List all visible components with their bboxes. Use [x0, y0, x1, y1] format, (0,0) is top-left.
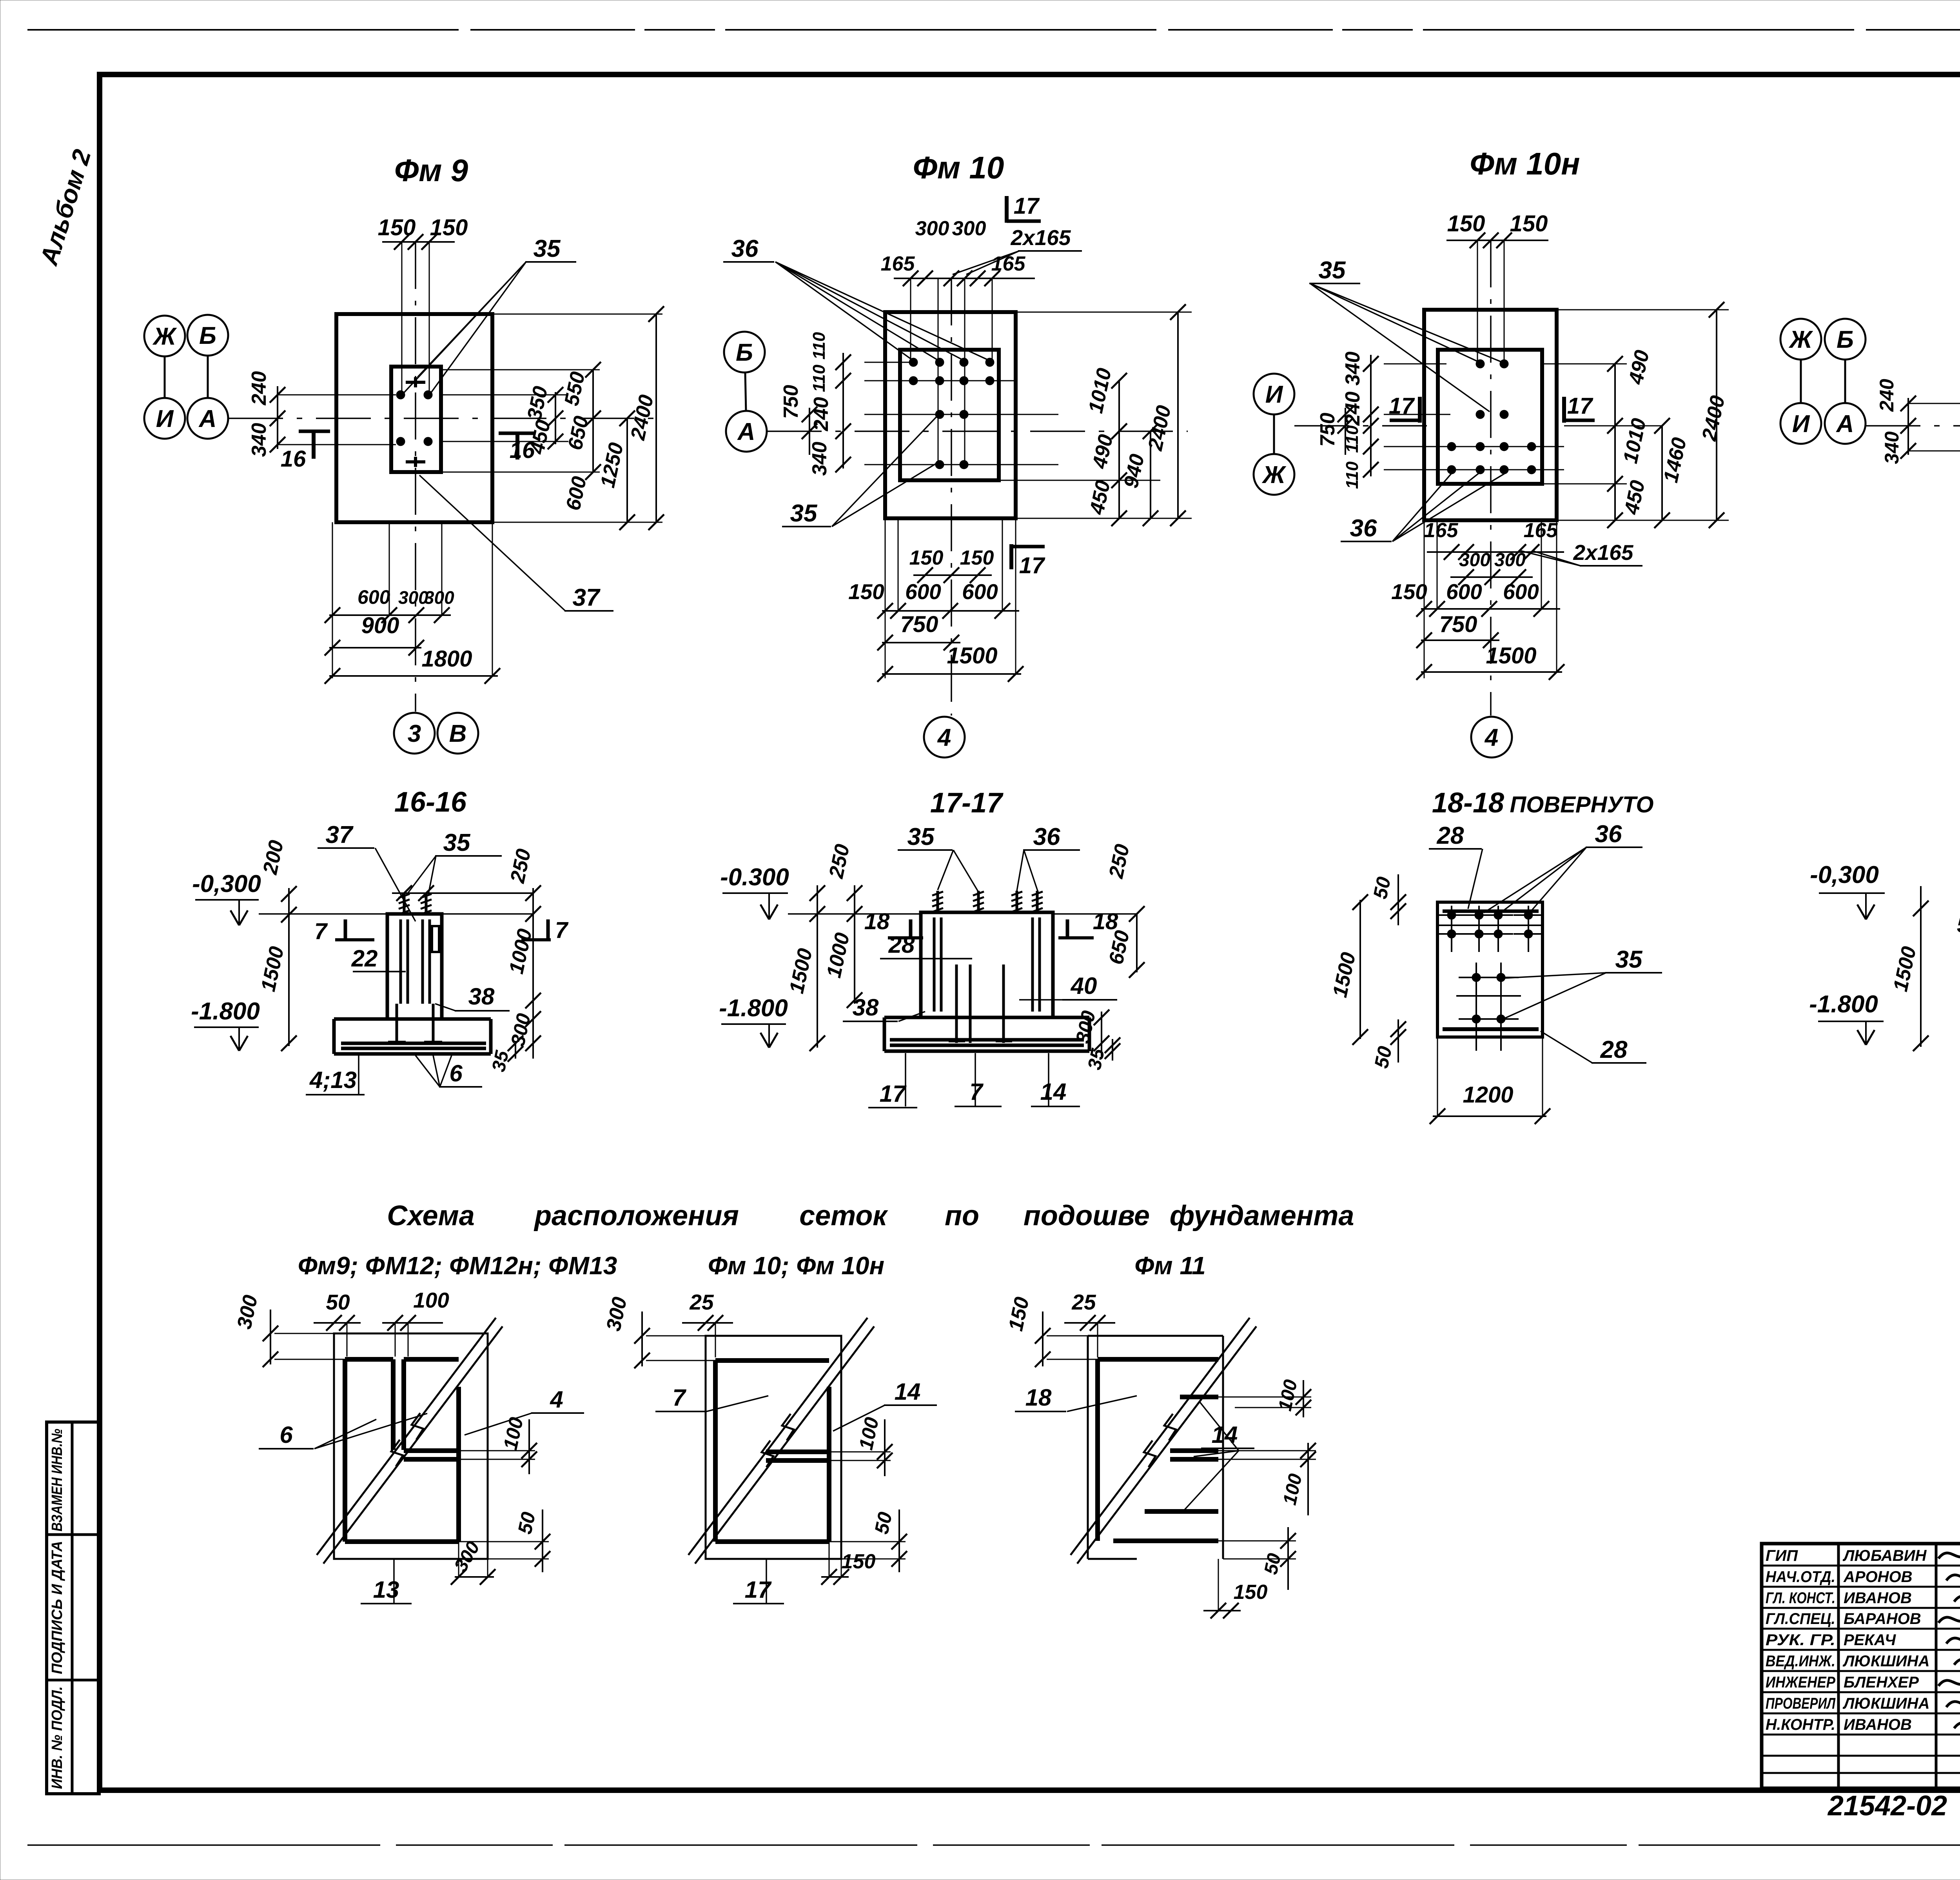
signature table frame [1762, 1544, 1960, 1788]
svg-text:36: 36 [1595, 821, 1622, 848]
svg-text:110: 110 [1343, 461, 1362, 489]
mesh3 label 18 [1015, 1384, 1137, 1411]
svg-text:35: 35 [443, 829, 471, 856]
svg-text:расположения: расположения [534, 1200, 739, 1232]
mesh1 dim 300 [233, 1293, 345, 1367]
plan FM10 bot dim line0 [913, 567, 992, 583]
sect19 level -0300 [1810, 861, 1885, 919]
plan FM10N bot dim 1500 [1486, 643, 1536, 668]
signature table rows [1762, 1566, 1960, 1773]
sect19 level -1800 [1809, 991, 1884, 1045]
signatures squiggles [1938, 1541, 1960, 1728]
sect16 footing body [334, 1019, 491, 1054]
svg-text:50: 50 [514, 1510, 539, 1536]
plan FM10 left dims [780, 332, 851, 476]
svg-text:22: 22 [351, 945, 378, 972]
plan FM10N bolts mid [1476, 410, 1508, 419]
plan FM10 bot dim 150 150 [909, 547, 994, 569]
svg-text:Б: Б [199, 322, 216, 349]
svg-text:150: 150 [1391, 579, 1427, 604]
svg-text:В: В [449, 720, 467, 747]
plan FM10N section mark 17 right [1564, 393, 1595, 423]
plan FM9 bottom dim 1800 [421, 646, 472, 672]
svg-text:А: А [1836, 411, 1854, 438]
sect17 base mesh bars [890, 1040, 1084, 1045]
svg-text:16-16: 16-16 [394, 787, 467, 818]
svg-text:750: 750 [1439, 612, 1477, 637]
mesh label fm10 group [708, 1252, 884, 1280]
svg-text:36: 36 [1350, 515, 1377, 542]
sect16 dim 35 [488, 1035, 523, 1074]
plan FM10N title [1470, 146, 1580, 181]
plan FM10 vert gridlines [911, 278, 992, 467]
svg-text:1200: 1200 [1463, 1082, 1513, 1108]
plan FM9 title [394, 153, 468, 188]
sect17 dim 650 [1105, 906, 1145, 978]
plan FM10N right dims [1607, 302, 1730, 528]
sect17 label 36 [1017, 823, 1080, 892]
sect16 dim 300 [506, 1012, 535, 1048]
plan FM9 label 35 [404, 235, 576, 394]
svg-text:АРОНОВ: АРОНОВ [1843, 1568, 1913, 1586]
sect18 label 28 top [1429, 822, 1483, 909]
sect18 dim 1500 [1328, 894, 1368, 1045]
sect16 left dim line [281, 886, 297, 1051]
svg-text:БАРАНОВ: БАРАНОВ [1844, 1610, 1921, 1628]
svg-text:2x165: 2x165 [1573, 540, 1634, 565]
plan FM10 label 36 [723, 235, 990, 361]
svg-text:17: 17 [1014, 193, 1040, 219]
sect16 level -1800 [191, 998, 260, 1051]
plan FM10 top dim line [894, 271, 1035, 286]
sect16 column body [387, 914, 442, 1019]
sect18 dim 1200 [1430, 1037, 1550, 1124]
svg-text:7: 7 [555, 917, 569, 943]
sect18 bolts bottom [1459, 1004, 1519, 1051]
svg-text:ПОВЕРНУТО: ПОВЕРНУТО [1510, 792, 1653, 817]
svg-text:ИВАНОВ: ИВАНОВ [1844, 1716, 1912, 1733]
plan FM9 outer outline [336, 314, 492, 522]
mesh2 dim 300 [602, 1295, 715, 1368]
sect17 top line [788, 913, 1137, 915]
svg-text:750: 750 [780, 385, 802, 419]
sect18 bolts mid [1456, 963, 1521, 1010]
plan FM9 bottom dim line1 [325, 522, 451, 678]
mesh1 label 4 [465, 1386, 584, 1435]
svg-text:Фм 10н: Фм 10н [1470, 146, 1580, 181]
plan FM9 axis circles ZH B I A [144, 315, 228, 439]
svg-text:-0,300: -0,300 [1810, 861, 1879, 888]
plan FM11 axis dim 240 340 [1876, 379, 1916, 464]
plan FM9 bottom dim texts [358, 586, 454, 608]
mesh2 label 17 [733, 1560, 784, 1604]
plan FM10N bolt row lines [1384, 364, 1564, 470]
svg-text:фундамента: фундамента [1170, 1200, 1354, 1232]
svg-text:ИНВ. № ПОДЛ.: ИНВ. № ПОДЛ. [49, 1686, 65, 1789]
plan FM10N axis vertical [1490, 240, 1492, 716]
svg-text:Ж: Ж [1261, 461, 1287, 489]
svg-text:100: 100 [413, 1288, 449, 1312]
plan FM10N dim 2x165 [1521, 540, 1642, 566]
svg-text:150: 150 [842, 1550, 876, 1573]
sect17 dim 250 right [1105, 842, 1134, 881]
bottom code [1827, 1790, 1960, 1822]
plan FM10 dim 165 right [991, 252, 1026, 275]
svg-text:40: 40 [1071, 973, 1097, 999]
plan FM10 bot dim 750 [900, 612, 938, 637]
plan FM10 bot dim 1500 [947, 643, 997, 668]
plan FM10N bottom axis circle 4 [1471, 717, 1512, 757]
svg-text:165: 165 [1424, 519, 1459, 542]
svg-text:И: И [1792, 411, 1810, 438]
plan FM10 section mark 17 bottom [1011, 544, 1045, 578]
svg-text:ГЛ.СПЕЦ.: ГЛ.СПЕЦ. [1766, 1610, 1835, 1628]
sect18 label 35 [1502, 946, 1662, 1019]
plan FM10 dim 2x165 [953, 225, 1082, 274]
svg-text:-1.800: -1.800 [1809, 991, 1878, 1018]
plan FM10 dim 165 left [881, 252, 915, 275]
plan FM9 anchor bolts [396, 377, 432, 467]
svg-text:18: 18 [864, 909, 890, 934]
sect17 dim 1500 [785, 946, 817, 995]
svg-text:50: 50 [1370, 1044, 1396, 1070]
svg-text:150: 150 [960, 547, 994, 569]
svg-text:240: 240 [1876, 379, 1898, 412]
plan FM9 column outline [391, 367, 441, 472]
svg-text:ИВАНОВ: ИВАНОВ [1844, 1589, 1912, 1607]
sect18 bottom bar [1443, 1027, 1539, 1031]
svg-text:7: 7 [969, 1079, 984, 1105]
signature table texts [1766, 1547, 1929, 1733]
svg-text:Схема: Схема [387, 1200, 475, 1232]
plan FM10N top dim line [1446, 233, 1548, 248]
svg-text:37: 37 [326, 821, 354, 848]
plan FM10N bot dim line3 [1416, 520, 1564, 680]
plan FM9 label 37 [419, 475, 613, 611]
svg-text:ИНЖЕНЕР: ИНЖЕНЕР [1766, 1674, 1835, 1691]
svg-text:ПРОВЕРИЛ: ПРОВЕРИЛ [1766, 1695, 1836, 1712]
svg-text:-0,300: -0,300 [192, 870, 261, 897]
mesh scheme heading [387, 1200, 1354, 1232]
plan FM10N bot dim line2 [1416, 632, 1499, 648]
plan FM10N dim line 165 [1427, 544, 1564, 560]
svg-text:900: 900 [361, 613, 399, 638]
sect16 top line [259, 913, 533, 915]
svg-text:600: 600 [905, 579, 941, 604]
plan FM10 bolt row lines [864, 362, 1058, 465]
mesh2 dim 150 bottom [821, 1542, 875, 1585]
svg-text:17: 17 [1389, 393, 1415, 419]
svg-text:14: 14 [1040, 1079, 1067, 1105]
svg-text:35: 35 [1615, 946, 1643, 973]
sect17 footing body [884, 1017, 1089, 1051]
plan FM10N outer outline [1424, 310, 1557, 520]
plan FM9 bolt gridline left [401, 242, 403, 398]
plan FM10 axis vertical [951, 278, 952, 716]
sect16 label 35 [406, 829, 502, 896]
sect16 label 4-13 [306, 1055, 365, 1095]
svg-text:150: 150 [1510, 211, 1548, 236]
mesh1 dim 50 and 100 [314, 1288, 449, 1357]
svg-text:Фм 10: Фм 10 [913, 150, 1004, 185]
plan FM9 bottom axis circles [394, 713, 478, 754]
mesh2 diagonal lines [688, 1318, 874, 1564]
page top edge line [27, 29, 1960, 31]
mesh2 dim 100 right [829, 1415, 893, 1476]
plan FM10 right ext lines [999, 312, 1192, 518]
sect18 dim 50 bottom [1370, 1019, 1406, 1070]
mesh3 dim 150 bottom [1203, 1559, 1267, 1618]
svg-text:300: 300 [1494, 550, 1526, 570]
plan FM10N label 36 [1341, 472, 1504, 542]
svg-text:подошве: подошве [1024, 1200, 1150, 1232]
svg-text:РУК. ГР.: РУК. ГР. [1766, 1631, 1835, 1649]
svg-text:600: 600 [358, 586, 390, 608]
svg-text:ГЛ. КОНСТ.: ГЛ. КОНСТ. [1766, 1589, 1835, 1607]
svg-text:1800: 1800 [421, 646, 472, 672]
svg-text:36: 36 [1033, 823, 1060, 850]
left stamp table [47, 1422, 99, 1794]
mesh3 thick bars [1098, 1359, 1218, 1541]
sect17 right dim 300 [1071, 1009, 1109, 1059]
plan FM9 axis horizontal line [228, 418, 662, 419]
svg-text:ПОДПИСЬ И ДАТА: ПОДПИСЬ И ДАТА [49, 1541, 65, 1674]
plan FM9 section mark 16 right [499, 433, 535, 463]
plan FM10N bolts top [1476, 360, 1508, 368]
sect16 dim 1500 [257, 945, 289, 994]
sect17 dim 250 left [825, 842, 854, 881]
plan FM9 bottom dim line3 [325, 522, 500, 684]
svg-text:110: 110 [809, 364, 829, 392]
plan FM9 right ext lines [441, 314, 662, 522]
svg-text:110: 110 [809, 332, 829, 360]
album label [34, 146, 96, 269]
plan FM10 label 35 [782, 416, 938, 527]
svg-text:ВЕД.ИНЖ.: ВЕД.ИНЖ. [1766, 1653, 1835, 1670]
svg-text:1500: 1500 [1486, 643, 1536, 668]
sect17 left dim lines [809, 885, 862, 1051]
svg-text:6: 6 [449, 1060, 463, 1086]
sect17 label 38 [843, 994, 925, 1021]
svg-text:сеток: сеток [799, 1200, 888, 1232]
svg-text:14: 14 [895, 1379, 921, 1405]
svg-text:4: 4 [1484, 724, 1498, 751]
sect17 bottom labels [868, 1053, 1080, 1108]
svg-text:150: 150 [1234, 1581, 1268, 1604]
plan FM9 right dim 550 [560, 370, 590, 408]
svg-text:150: 150 [1447, 211, 1485, 236]
svg-text:7: 7 [314, 919, 328, 944]
plan FM9 section mark 16 left [281, 431, 330, 472]
plan FM10N dim 150 150 [1447, 211, 1548, 236]
plan FM10N bot dim 750 [1439, 612, 1477, 637]
sect16 rebar hooks [388, 1004, 442, 1045]
sect17 label 28 [880, 932, 972, 959]
section 17-17 title [930, 787, 1004, 819]
sect18 label 36 [1484, 821, 1642, 913]
plan FM10N dim 300 300 [1450, 550, 1533, 585]
svg-text:340: 340 [1881, 431, 1903, 464]
svg-text:6: 6 [279, 1422, 293, 1448]
mesh3 dim 25 [1064, 1290, 1115, 1357]
mesh2 label 14 [833, 1379, 937, 1431]
sect17 inner rebars [949, 965, 1012, 1043]
svg-text:50: 50 [326, 1290, 350, 1314]
plan FM10N label 35 [1309, 257, 1503, 412]
svg-text:37: 37 [573, 584, 601, 611]
svg-text:Б: Б [736, 339, 753, 366]
plan FM10 bolts bottom [935, 460, 968, 469]
stamp text podpis [49, 1541, 65, 1674]
svg-text:ГИП: ГИП [1766, 1547, 1798, 1564]
plan FM9 bottom dim 900 [361, 613, 399, 638]
plan FM10 title [913, 150, 1004, 185]
svg-text:18-18: 18-18 [1432, 787, 1504, 819]
svg-text:Б: Б [1837, 326, 1854, 353]
mesh2 dim 25 [682, 1290, 733, 1357]
plan FM10 column outline [900, 350, 999, 480]
sect17 studs [932, 891, 1043, 914]
mesh1 dim 50 right [459, 1509, 550, 1572]
sect16 mark 7 right [521, 917, 569, 943]
plan FM10 bot dim line3 [877, 518, 1024, 682]
plan FM9 right dim 1250 [596, 441, 628, 490]
svg-text:25: 25 [1071, 1290, 1096, 1314]
plan FM10N right circle group [1780, 319, 1866, 444]
mesh3 diagonal lines [1071, 1318, 1256, 1564]
svg-text:И: И [1265, 381, 1283, 408]
plan FM10 bot dim line2 [877, 635, 960, 650]
plan FM10N dim 165 right [1524, 519, 1558, 542]
svg-text:600: 600 [1503, 579, 1539, 604]
svg-text:36: 36 [731, 235, 759, 262]
svg-text:4: 4 [550, 1386, 563, 1413]
mesh1 label 6 [259, 1413, 427, 1449]
plan FM9 right dim 350 [523, 384, 552, 422]
mesh1 label 13 [361, 1560, 412, 1604]
plan FM9 right dim lines [548, 306, 664, 530]
plan FM10N dim 165 left [1424, 519, 1459, 542]
sect17 level -0300 [720, 864, 789, 919]
svg-text:-1.800: -1.800 [719, 995, 788, 1022]
svg-text:600: 600 [1446, 579, 1482, 604]
mesh3 dim 50 right [1218, 1527, 1296, 1590]
svg-text:4: 4 [937, 724, 951, 751]
svg-text:165: 165 [991, 252, 1026, 275]
mesh1 outer outline [334, 1333, 488, 1559]
svg-text:1500: 1500 [947, 643, 997, 668]
svg-text:38: 38 [468, 983, 495, 1010]
svg-text:17-17: 17-17 [930, 787, 1004, 819]
mesh1 diagonal lines [317, 1318, 503, 1564]
plan FM10 outer outline [885, 312, 1016, 518]
plan FM10N bolts row3 [1447, 442, 1536, 451]
sect16 level -0300 [192, 870, 261, 925]
sect16 base mesh bars [341, 1043, 486, 1048]
plan FM10 dim 300 300 [915, 217, 986, 240]
sect18 dim 50 top [1369, 874, 1406, 925]
svg-text:3: 3 [408, 720, 421, 747]
plan FM10N bolts row4 [1447, 465, 1536, 474]
sect16 studs [399, 893, 432, 914]
svg-text:ЛЮКШИНА: ЛЮКШИНА [1842, 1695, 1929, 1712]
svg-text:А: А [198, 405, 217, 432]
plan FM10 bot dim line1 [877, 518, 1019, 678]
svg-text:Н.КОНТР.: Н.КОНТР. [1766, 1716, 1835, 1733]
plan FM9 bottom dim line2 [325, 640, 424, 656]
plan FM10 right dims [1084, 304, 1186, 526]
sect17 column body [921, 912, 1053, 1017]
plan FM10 axis circles B A [724, 332, 767, 452]
mesh label fm9 group [298, 1252, 617, 1280]
svg-text:-0.300: -0.300 [720, 864, 789, 891]
plan FM10 bolts row2 [909, 376, 994, 385]
svg-text:150: 150 [848, 579, 884, 604]
plan FM10 bolts row1 [909, 358, 994, 367]
plan FM10 bottom axis circle 4 [924, 717, 965, 757]
svg-text:18: 18 [1025, 1384, 1052, 1411]
svg-text:4;13: 4;13 [309, 1067, 357, 1093]
mesh2 label 7 [655, 1384, 768, 1411]
sect17 level -1800 [719, 995, 788, 1048]
svg-text:300: 300 [915, 217, 949, 240]
svg-text:РЕКАЧ: РЕКАЧ [1844, 1631, 1896, 1649]
svg-text:35: 35 [907, 823, 935, 850]
section 16-16 title [394, 787, 467, 818]
svg-text:БЛЕНХЕР: БЛЕНХЕР [1844, 1674, 1919, 1691]
svg-text:38: 38 [853, 994, 879, 1021]
sect16 label 37 [318, 821, 416, 921]
svg-text:17: 17 [1567, 393, 1593, 419]
svg-text:НАЧ.ОТД.: НАЧ.ОТД. [1766, 1568, 1835, 1586]
stamp text inv podl [49, 1686, 65, 1789]
svg-text:17: 17 [880, 1081, 907, 1107]
svg-text:Ж: Ж [152, 323, 177, 350]
sect17 mark 18 right [1058, 909, 1118, 939]
plan FM9 left dim line [270, 386, 396, 452]
mesh3 dim 150 [1004, 1295, 1098, 1367]
mesh1 dim 100 right [459, 1415, 537, 1474]
sect17 label 40 [1019, 973, 1117, 1000]
stamp text vzamen [49, 1429, 65, 1531]
svg-text:Фм 11: Фм 11 [1134, 1252, 1206, 1280]
svg-text:750: 750 [900, 612, 938, 637]
svg-text:ЛЮБАВИН: ЛЮБАВИН [1842, 1547, 1927, 1564]
svg-text:28: 28 [1600, 1036, 1628, 1063]
mesh3 label 14 [1182, 1402, 1254, 1513]
svg-text:13: 13 [373, 1577, 399, 1603]
svg-text:150: 150 [909, 547, 944, 569]
svg-text:28: 28 [1437, 822, 1464, 849]
mesh2 thick bars [715, 1361, 829, 1542]
svg-text:50: 50 [870, 1510, 896, 1536]
svg-text:ВЗАМЕН ИНВ.№: ВЗАМЕН ИНВ.№ [49, 1429, 65, 1531]
mesh3 outer outline [1088, 1336, 1223, 1559]
sect17 mark 18 left [864, 909, 923, 939]
svg-text:21542-02: 21542-02 [1827, 1790, 1947, 1822]
sect18 label 28 bottom [1541, 1031, 1646, 1063]
plan FM9 dim 150 right [430, 215, 468, 240]
svg-text:300: 300 [952, 217, 986, 240]
svg-text:35: 35 [1319, 257, 1346, 284]
plan FM10 section mark 17 top [1007, 193, 1041, 223]
sect19 mark 5 left [1957, 912, 1960, 937]
svg-text:340: 340 [808, 442, 831, 476]
plan FM9 dim 150 left [378, 215, 416, 240]
svg-text:35: 35 [534, 235, 561, 262]
sect18 bolts row2 [1437, 919, 1543, 952]
svg-text:750: 750 [1316, 413, 1339, 447]
